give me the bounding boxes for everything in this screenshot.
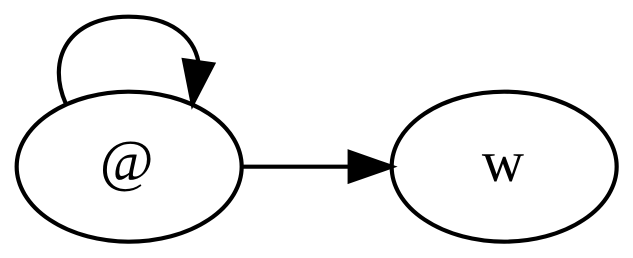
edge @->w (wire) bbox=[243, 166, 349, 168]
self-loop arrowhead bbox=[184, 60, 213, 103]
node @ label "@" bbox=[100, 129, 154, 194]
svg-text:@: @ bbox=[100, 129, 154, 194]
self-loop edge @->@ (wire) bbox=[59, 17, 199, 104]
node @ (ellipse) bbox=[17, 92, 242, 242]
svg-text:w: w bbox=[482, 129, 524, 194]
edge @->w arrowhead bbox=[350, 152, 392, 181]
node w (ellipse) bbox=[392, 92, 617, 242]
node w label "w" bbox=[482, 129, 524, 194]
